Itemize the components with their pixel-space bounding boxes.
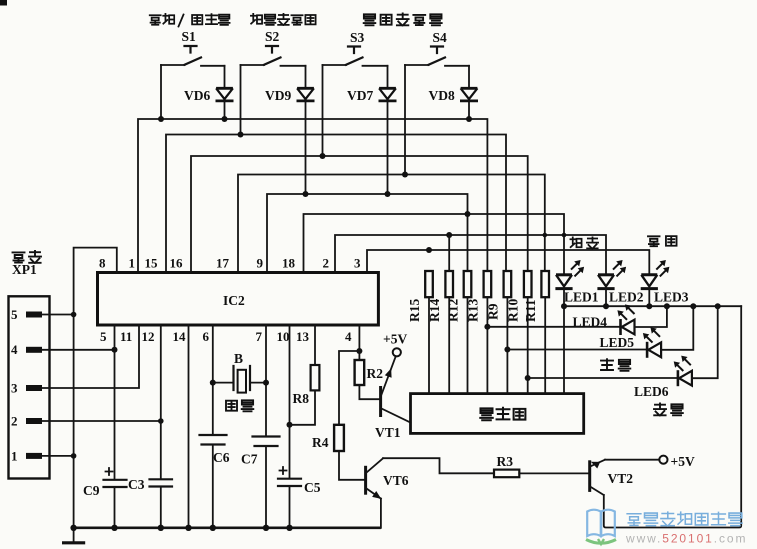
wire pin4 branch to R4: [339, 351, 359, 425]
IC2 bottom pin numbers: [100, 329, 352, 344]
wire VT6 emitter to rail: [380, 499, 382, 528]
wire LED6 to bus: [692, 306, 718, 378]
wire VT6 collector to R3: [383, 458, 494, 473]
resistor R11: [541, 271, 549, 297]
display box: [411, 394, 584, 434]
watermark hanzi 7 glyphs: [627, 512, 742, 526]
wire S4 right to VD8: [468, 66, 470, 89]
svg-text:VT2: VT2: [608, 471, 634, 486]
svg-text:R9: R9: [485, 303, 500, 320]
wire IC pin6 / C6 branch: [212, 325, 214, 528]
node R8-pin10: [287, 422, 293, 428]
svg-text:LED5: LED5: [600, 335, 635, 350]
svg-text:LED6: LED6: [634, 384, 669, 399]
wire L4 pin17 bus: [238, 175, 545, 273]
svg-text:C5: C5: [304, 480, 321, 495]
wire VD6 cathode to L1: [224, 101, 226, 119]
node VD6-L1: [222, 116, 228, 122]
svg-text:4: 4: [11, 342, 18, 357]
label timing (jishi): [654, 404, 683, 416]
svg-text:VT6: VT6: [383, 473, 409, 488]
svg-text:XP1: XP1: [12, 262, 37, 277]
IC2 top pin numbers: [99, 256, 361, 271]
svg-text:2: 2: [11, 414, 18, 429]
wire VD8 cathode to L1: [468, 101, 470, 119]
node rail C6: [210, 525, 216, 531]
svg-text:VD6: VD6: [184, 88, 210, 103]
svg-text:R11: R11: [523, 299, 538, 322]
diode VD6: [216, 88, 234, 101]
node rail C7: [263, 525, 269, 531]
svg-text:18: 18: [282, 256, 296, 271]
wire IC pin12 / C3 branch: [160, 325, 162, 528]
resistor R9: [504, 271, 512, 297]
svg-text:C9: C9: [83, 483, 100, 498]
node pin2 joint: [158, 418, 164, 424]
wire XP1 pin3 to IC pin11: [42, 325, 139, 388]
node S3-L3: [320, 153, 326, 159]
node rail C5: [286, 525, 292, 531]
wire IC pin4: [358, 325, 360, 360]
crystal B: [234, 366, 251, 390]
LED cathode bus: [564, 305, 741, 307]
node bus LED2: [603, 303, 609, 309]
svg-text:8: 8: [99, 256, 106, 271]
wire IC pin10 / C5 branch: [289, 325, 291, 528]
wire R9 bottom to display: [506, 297, 508, 393]
wire L5 pin9 bus: [267, 194, 468, 273]
svg-text:R10: R10: [506, 299, 521, 322]
wire XP1 pin5 to gnd vertical: [42, 314, 74, 316]
diode VD7: [379, 88, 397, 101]
svg-text:R15: R15: [407, 299, 422, 322]
svg-text:S2: S2: [265, 29, 280, 44]
node S2-L2: [238, 132, 244, 138]
node R15-L8: [426, 247, 432, 253]
wire R15 bottom to display: [428, 297, 430, 393]
node VD7-L5: [385, 191, 391, 197]
wire IC pin5 / C9 branch: [114, 325, 116, 528]
node R14-L7: [446, 232, 452, 238]
node rail gnd: [70, 525, 76, 531]
connector XP1 label: [13, 251, 42, 263]
wire L8 pin3 bus to LED3: [367, 250, 649, 275]
svg-text:+5V: +5V: [383, 332, 407, 347]
crystal hanzi label: [226, 400, 253, 411]
switch S1: [185, 58, 202, 65]
svg-text:9: 9: [257, 256, 264, 271]
capacitor C3: [150, 479, 173, 486]
wire S1 left to L1: [160, 65, 162, 119]
wire LED1 cathode to display: [563, 289, 565, 394]
wire R14 bottom to display: [448, 297, 450, 393]
node bus LED6 return: [715, 303, 721, 309]
switch S2 actuator: [266, 46, 278, 53]
svg-text:LED4: LED4: [573, 315, 608, 330]
IC2: [98, 273, 379, 326]
svg-text:C3: C3: [128, 477, 145, 492]
wire R3 to VT2 base: [519, 472, 589, 474]
watermark book icon: [587, 510, 615, 537]
wire LED5 anode line: [507, 349, 645, 351]
svg-text:16: 16: [170, 256, 184, 271]
switch S2: [264, 58, 281, 65]
wire VD9 cathode to L5: [305, 101, 307, 194]
svg-text:LED3: LED3: [654, 290, 689, 305]
label fast (kuaisu): [570, 237, 598, 248]
crystal B wires: [213, 382, 266, 384]
wire S1 right to VD6: [224, 66, 226, 89]
svg-text:17: 17: [216, 256, 230, 271]
node bus LED3: [646, 303, 652, 309]
display hanzi label: [480, 408, 525, 420]
svg-text:12: 12: [142, 329, 155, 344]
wire L2 pin15 bus: [166, 135, 506, 273]
wire LED4 to bus: [635, 306, 667, 327]
svg-text:VD7: VD7: [347, 88, 373, 103]
wire L7 pin2 bus to LED2: [335, 235, 606, 275]
wire L1 pin1 bus: [138, 119, 487, 273]
node LED1 feed L7 crossing blob: [562, 233, 567, 238]
wire S2 right to VD9: [305, 66, 307, 89]
node VD8-L1: [466, 116, 472, 122]
LED1: [555, 275, 572, 289]
svg-text:LED1: LED1: [564, 290, 599, 305]
capacitor C7: [253, 437, 280, 447]
svg-text:R12: R12: [446, 299, 461, 322]
wire R13 bottom to display: [486, 297, 488, 393]
LED4: [621, 319, 635, 335]
svg-text:4: 4: [345, 329, 352, 344]
watermark book ribbon: [586, 540, 616, 544]
wire VT2 emitter to +5V: [605, 459, 659, 461]
svg-text:VD8: VD8: [429, 88, 455, 103]
node crystal right: [263, 380, 269, 386]
node pin1 gnd: [71, 453, 77, 459]
node L4-L7 crossing blob: [543, 233, 548, 238]
node R13 LED4: [484, 324, 490, 330]
svg-text:3: 3: [11, 381, 18, 396]
transistor VT6: [366, 458, 409, 502]
svg-text:R3: R3: [497, 454, 514, 469]
svg-text:B: B: [234, 351, 243, 366]
wire VD7 cathode to L5: [387, 101, 389, 194]
resistor R10: [524, 271, 532, 297]
switch S3 actuator: [348, 47, 360, 54]
node R9 LED5: [504, 347, 510, 353]
wire XP1 pin1 to gnd vertical: [42, 455, 74, 457]
capacitor C9: [104, 480, 127, 487]
wire IC pin8 to ground vertical: [74, 248, 117, 528]
diode VD8: [460, 88, 478, 101]
node L5-L6-R12: [465, 211, 471, 217]
svg-text:www.520101.com: www.520101.com: [625, 532, 747, 546]
capacitor C6: [200, 435, 227, 445]
svg-text:S4: S4: [433, 30, 448, 45]
resistor R8: [311, 365, 320, 390]
node S4-L4: [402, 172, 408, 178]
scan corner mark: [0, 0, 7, 6]
wire IC pin14 to rail: [188, 325, 190, 528]
node rail C9: [111, 525, 117, 531]
diode VD9: [297, 88, 315, 101]
node rail pin14: [185, 525, 191, 531]
wire R4 bottom to VT6 base: [339, 451, 364, 480]
caption function select key: [251, 14, 316, 25]
terminal +5V VT2: [659, 456, 667, 464]
node pin5 gnd: [71, 312, 77, 318]
wire R2 bottom to VT1 base: [359, 385, 379, 399]
node bus LED5 return: [690, 303, 696, 309]
wire LED3 cathode to bus: [648, 289, 650, 307]
switch S4: [429, 58, 446, 65]
label keep-warm (baowen): [648, 236, 677, 246]
node R10 LED6: [525, 375, 531, 381]
svg-text:2: 2: [323, 256, 330, 271]
svg-text:3: 3: [354, 256, 361, 271]
wire VT2 collector to right riser: [604, 306, 741, 527]
svg-text:LED2: LED2: [609, 290, 644, 305]
svg-text:R2: R2: [367, 366, 384, 381]
ground rail: [74, 526, 381, 529]
svg-text:R13: R13: [465, 299, 480, 322]
wire XP1 pin2 to IC pin12 node: [42, 420, 161, 422]
node rail C3: [158, 525, 164, 531]
resistor R4: [334, 425, 344, 451]
ground symbol: [73, 528, 75, 542]
svg-text:C6: C6: [213, 450, 230, 465]
wire IC pin7 / C7 branch: [265, 325, 267, 528]
svg-text:C7: C7: [241, 452, 258, 467]
wire R11 bottom to display: [544, 297, 546, 393]
wire S3 left to L3: [322, 65, 324, 156]
caption time set key: [364, 14, 442, 26]
switch S1 actuator: [185, 46, 197, 53]
transistor VT2: [589, 458, 633, 495]
node crystal left: [210, 380, 216, 386]
svg-text:IC2: IC2: [223, 293, 245, 308]
resistor R13: [484, 271, 492, 297]
wire R12 bottom to display: [467, 297, 469, 393]
node pin4 branch: [356, 348, 362, 354]
svg-text:10: 10: [277, 329, 290, 344]
LED5: [647, 342, 661, 358]
node bus LED1: [561, 303, 567, 309]
caption start/stop key: [150, 14, 230, 27]
connector XP1: [9, 296, 50, 478]
node S1-L1: [158, 116, 164, 122]
wire LED4 anode line: [487, 326, 619, 328]
LED2: [597, 275, 614, 289]
label cook (shaozhu): [601, 359, 630, 371]
terminal +5V VT1: [393, 348, 401, 356]
LED3: [641, 275, 658, 289]
svg-text:15: 15: [145, 256, 159, 271]
wire R14 top to L7: [448, 235, 450, 271]
wire LED2 cathode to bus: [605, 289, 607, 307]
wire LED5 to bus: [661, 306, 693, 350]
wire S3 right to VD7: [387, 66, 389, 89]
svg-text:R8: R8: [293, 391, 310, 406]
wire S2 left to L2: [240, 65, 242, 135]
resistor R14: [445, 271, 453, 297]
switch S4 actuator: [431, 47, 443, 54]
wire XP1 pin4 to IC pin5: [42, 349, 115, 351]
svg-text:5: 5: [11, 307, 18, 322]
svg-text:R14: R14: [427, 299, 442, 322]
svg-text:R4: R4: [312, 435, 329, 450]
resistor R2: [355, 360, 365, 385]
svg-text:S3: S3: [350, 30, 365, 45]
svg-text:13: 13: [296, 329, 310, 344]
resistor R12: [464, 271, 472, 297]
svg-text:1: 1: [129, 256, 136, 271]
wire IC pin13 to R8: [314, 325, 316, 365]
svg-text:7: 7: [256, 329, 263, 344]
switch S3: [346, 58, 363, 65]
wire L6 pin18 bus to LED1: [304, 214, 565, 275]
svg-text:1: 1: [11, 449, 18, 464]
svg-text:6: 6: [203, 329, 210, 344]
node VD9-L5: [303, 191, 309, 197]
svg-text:S1: S1: [182, 29, 197, 44]
capacitor C5: [278, 479, 301, 486]
wire S4 left to L4: [404, 65, 406, 175]
node pin4 joint: [112, 347, 118, 353]
wire LED6 anode line: [528, 377, 677, 379]
transistor VT1: [375, 356, 411, 440]
svg-text:VD9: VD9: [265, 88, 291, 103]
LED6: [678, 370, 692, 386]
svg-text:11: 11: [120, 329, 132, 344]
svg-text:14: 14: [173, 329, 187, 344]
svg-text:+5V: +5V: [671, 454, 695, 469]
resistor R3: [494, 470, 519, 478]
wire L3 pin16 bus: [191, 156, 528, 273]
wire R10 bottom to display: [527, 297, 529, 393]
node bus LED4 return: [664, 303, 670, 309]
svg-text:VT1: VT1: [375, 425, 401, 440]
wire R8 bottom to pin10 node: [290, 390, 316, 424]
svg-text:5: 5: [100, 329, 107, 344]
resistor R15: [425, 271, 433, 297]
